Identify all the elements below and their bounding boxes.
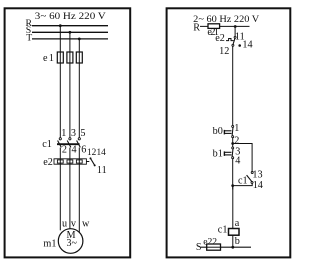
pushbutton b0 (NC) <box>224 125 233 137</box>
svg-text:4: 4 <box>235 156 240 167</box>
seal-in contact c1 13-14 <box>247 172 254 184</box>
svg-text:4: 4 <box>72 144 77 155</box>
svg-text:c1: c1 <box>218 224 228 235</box>
svg-text:12: 12 <box>87 148 97 158</box>
svg-text:m1: m1 <box>43 239 56 250</box>
svg-text:14: 14 <box>97 148 107 158</box>
e2 overload trip actuator hook <box>226 39 234 41</box>
junction on S <box>69 31 72 34</box>
e2 heater pole 2 <box>67 160 73 163</box>
contactor c1 pole 2 contact <box>67 138 71 148</box>
wire pole1 contact down to motor <box>59 148 61 231</box>
wire coil to S bus <box>232 235 234 247</box>
svg-text:6: 6 <box>81 144 86 155</box>
svg-text:R: R <box>193 23 200 34</box>
e2 changeover contact <box>232 36 236 46</box>
wire pole2 contact down to motor <box>69 148 71 229</box>
fuse e1 pole 3 <box>76 52 82 63</box>
junction node on R bus <box>234 25 237 28</box>
svg-text:b0: b0 <box>213 126 223 137</box>
e2 heater pole 3 <box>76 160 82 163</box>
overload relay e2 body <box>54 159 86 164</box>
bus S <box>32 31 108 33</box>
bus R <box>32 25 108 27</box>
svg-text:3~ 60 Hz 220 V: 3~ 60 Hz 220 V <box>35 11 106 22</box>
junction on T <box>78 38 81 41</box>
control bus S <box>201 246 251 248</box>
fuse e1 pole 2 <box>67 52 73 63</box>
e2 aux blade indicator <box>90 157 96 166</box>
svg-text:T: T <box>26 32 32 43</box>
svg-text:14: 14 <box>242 40 252 51</box>
svg-text:e2: e2 <box>215 33 225 44</box>
wire L3 down <box>78 39 80 138</box>
svg-text:c1: c1 <box>42 139 52 150</box>
wire junction to e2 contact <box>234 27 236 37</box>
svg-text:2~ 60 Hz 220 V: 2~ 60 Hz 220 V <box>193 14 259 25</box>
bus T <box>32 38 108 40</box>
motor m1 circle <box>58 229 83 254</box>
junction coil to S bus <box>231 246 234 249</box>
junction on R <box>59 24 62 27</box>
fuse e21 <box>208 24 220 29</box>
svg-text:e1: e1 <box>43 53 54 64</box>
wire L1 down <box>59 26 61 138</box>
left panel border frame <box>5 8 131 257</box>
svg-text:3~: 3~ <box>67 238 78 249</box>
svg-text:w: w <box>82 219 90 230</box>
wire seal-in bottom to node2 <box>233 183 253 185</box>
node above b1 <box>231 142 234 145</box>
contactor coil c1 <box>229 229 240 236</box>
svg-text:14: 14 <box>253 180 263 191</box>
control bus R <box>200 25 250 27</box>
svg-text:a: a <box>235 218 240 229</box>
svg-text:1: 1 <box>234 123 239 134</box>
right panel border frame <box>167 8 291 257</box>
svg-text:12: 12 <box>219 46 229 57</box>
svg-text:5: 5 <box>80 128 85 139</box>
node2 dot <box>231 184 234 187</box>
svg-text:2: 2 <box>234 135 239 146</box>
contactor c1 pole 3 contact <box>77 138 81 148</box>
wire e2 contact to b0 <box>232 46 234 126</box>
svg-text:11: 11 <box>97 165 107 176</box>
wire b1 to node2 <box>232 159 234 190</box>
svg-text:e2: e2 <box>43 157 53 168</box>
svg-text:b: b <box>235 236 240 247</box>
svg-text:1: 1 <box>61 128 66 139</box>
contactor c1 pole 1 contact <box>58 138 62 148</box>
branch wire to seal-in contact <box>233 144 252 172</box>
contactor linkage bar <box>57 143 80 145</box>
terminal 14 dot <box>238 44 241 47</box>
wire L2 down <box>69 32 71 138</box>
pushbutton b1 (NO) <box>224 147 233 159</box>
svg-text:c1: c1 <box>238 175 248 186</box>
e2 trip linkage <box>86 161 89 163</box>
fuse e1 pole 1 <box>57 52 63 63</box>
e2 heater pole 1 <box>57 160 63 163</box>
wire node2 to coil <box>232 186 234 229</box>
wire pole3 contact down to motor <box>78 148 80 233</box>
svg-text:13: 13 <box>252 169 262 180</box>
wire b0 to node <box>232 138 234 148</box>
svg-text:u: u <box>62 219 67 230</box>
svg-text:2: 2 <box>62 144 67 155</box>
fuse e22 <box>207 244 221 250</box>
svg-text:3: 3 <box>71 128 76 139</box>
svg-text:b1: b1 <box>213 148 223 159</box>
